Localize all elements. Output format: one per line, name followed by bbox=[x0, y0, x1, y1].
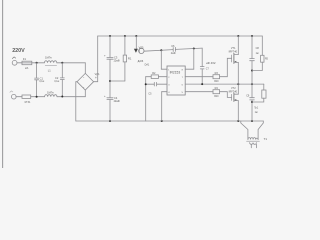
bus junction dots bbox=[109, 35, 111, 37]
capacitor C6 bbox=[172, 48, 174, 52]
capacitor C9 bbox=[250, 97, 255, 99]
VS row dots bbox=[201, 83, 203, 85]
wire bridge plus output bbox=[94, 36, 98, 82]
capacitor C2 bbox=[61, 63, 63, 78]
wire VB drop to pin8 bbox=[193, 49, 195, 70]
svg-text:1м: 1м bbox=[256, 52, 259, 55]
resistor R5 bbox=[261, 36, 263, 55]
svg-text:0,1м: 0,1м bbox=[54, 81, 59, 83]
capacitor C3 electrolytic bbox=[109, 36, 111, 57]
wire R4 to gate VT2 bbox=[220, 92, 232, 98]
page edge line bbox=[2, 0, 4, 168]
svg-text:С5: С5 bbox=[148, 92, 152, 95]
node B (C2 top) bbox=[61, 62, 63, 64]
inductor L1 bottom winding bbox=[45, 95, 57, 97]
bridge rectifier VD1 diamond bbox=[77, 73, 94, 90]
svg-text:22мФ: 22мФ bbox=[114, 100, 120, 103]
svg-text:нФ 4б2: нФ 4б2 bbox=[206, 61, 216, 65]
AC terminal X2 (bottom) bbox=[12, 94, 17, 99]
transformer core bbox=[247, 140, 260, 142]
wire VT2 source to ground bbox=[237, 101, 239, 121]
svg-text:1МГн: 1МГн bbox=[45, 56, 52, 60]
wire VT1 source to midpoint bbox=[237, 62, 239, 94]
transistor VT1 IRF740 bbox=[237, 36, 239, 55]
svg-text:2A: 2A bbox=[25, 66, 28, 70]
svg-text:2: 2 bbox=[168, 77, 170, 79]
pin stubs left bbox=[161, 68, 167, 70]
ground bus bbox=[76, 120, 263, 122]
wire terminal to thermistor bbox=[16, 96, 22, 98]
wire C3 to C4 bbox=[109, 60, 111, 98]
resistor R4 bbox=[213, 90, 220, 94]
svg-text:С8: С8 bbox=[256, 47, 260, 50]
svg-text:VД5: VД5 bbox=[139, 46, 144, 49]
node R6 join bbox=[251, 101, 253, 103]
capacitor C4 electrolytic bbox=[107, 97, 113, 99]
VCC row wire bbox=[144, 50, 173, 52]
node D (C2 bottom) bbox=[61, 96, 63, 98]
wire R3 to gate VT1 bbox=[220, 58, 232, 76]
svg-text:IRF740: IRF740 bbox=[229, 89, 238, 93]
svg-text:~: ~ bbox=[83, 77, 85, 80]
svg-text:0,1м: 0,1м bbox=[39, 81, 44, 83]
capacitor C5 bbox=[153, 82, 155, 86]
svg-text:7: 7 bbox=[182, 77, 184, 79]
AC terminal X1 (top) bbox=[12, 60, 17, 65]
svg-text:8: 8 bbox=[182, 69, 184, 71]
capacitor C8 divider chain bbox=[251, 36, 253, 58]
wire fuse to node A bbox=[32, 62, 45, 64]
svg-text:С9: С9 bbox=[246, 94, 250, 97]
svg-text:22мФ: 22мФ bbox=[114, 59, 120, 62]
svg-text:КТ31: КТ31 bbox=[25, 101, 31, 104]
transformer T1 primary winding bbox=[248, 138, 258, 140]
svg-text:~: ~ bbox=[83, 86, 85, 89]
svg-text:820: 820 bbox=[214, 95, 219, 98]
svg-text:6: 6 bbox=[182, 84, 184, 86]
node C (C1 bottom) bbox=[36, 96, 38, 98]
resistor R2 bbox=[151, 75, 158, 79]
svg-text:220V: 220V bbox=[12, 48, 25, 54]
svg-text:IR2153: IR2153 bbox=[170, 71, 181, 75]
svg-text:+: + bbox=[104, 94, 106, 98]
svg-text:С1: С1 bbox=[40, 76, 44, 80]
svg-text:3: 3 bbox=[168, 84, 170, 86]
resistor R3 bbox=[213, 75, 220, 79]
svg-text:4: 4 bbox=[168, 92, 170, 94]
secondary lead right bbox=[255, 144, 257, 148]
resistor R1 bbox=[124, 36, 126, 55]
svg-text:+: + bbox=[95, 76, 97, 80]
wire midpoint to R1 bbox=[110, 80, 125, 82]
svg-text:Д226: Д226 bbox=[138, 60, 144, 63]
IC DA1 IR2153 bbox=[167, 66, 185, 95]
fuse F1 bbox=[22, 61, 32, 64]
tilde mark bottom bbox=[10, 91, 13, 92]
wire choke to bridge (top AC) bbox=[57, 62, 86, 64]
svg-text:С6: С6 bbox=[171, 44, 175, 48]
capacitor C7 chain bbox=[201, 48, 203, 66]
diode VD5 with transistor circle bbox=[135, 36, 137, 49]
node C3/C4 midpoint bbox=[109, 80, 111, 82]
svg-text:Тр1: Тр1 bbox=[254, 107, 259, 110]
thermistor KT31 bbox=[22, 95, 31, 98]
svg-text:DA1: DA1 bbox=[145, 64, 150, 67]
svg-text:L1: L1 bbox=[48, 68, 51, 72]
capacitor C1 bbox=[36, 63, 38, 78]
wire choke to bridge (bottom AC) bbox=[57, 96, 85, 98]
wire VCC to pin1 bbox=[160, 50, 162, 69]
wire bridge minus output bbox=[76, 82, 77, 121]
transformer T1 primary lead right bbox=[258, 121, 263, 140]
svg-text:VТ1: VТ1 bbox=[231, 47, 236, 50]
svg-text:R5: R5 bbox=[265, 59, 269, 61]
wire thermistor to choke bbox=[31, 96, 45, 98]
top DC+ bus bbox=[98, 35, 263, 37]
svg-text:+: + bbox=[104, 54, 106, 58]
node VCC1 bbox=[160, 49, 162, 51]
wire R2 node to ground bbox=[145, 77, 147, 121]
tilde mark top bbox=[12, 57, 15, 59]
wire terminal to fuse bbox=[17, 62, 22, 64]
svg-text:820: 820 bbox=[214, 80, 219, 83]
svg-text:С7: С7 bbox=[206, 67, 210, 70]
wire pin4 to ground bbox=[161, 92, 163, 121]
pin stubs right bbox=[185, 68, 194, 70]
transformer secondary winding bbox=[250, 143, 257, 145]
svg-text:5: 5 bbox=[182, 92, 184, 94]
node VCC2 bbox=[193, 48, 195, 50]
svg-text:2мФ: 2мФ bbox=[171, 52, 176, 55]
svg-text:IRF740: IRF740 bbox=[229, 50, 238, 54]
node A (C1 top) bbox=[36, 62, 38, 64]
node R5 join bbox=[251, 70, 253, 72]
ground bus dots bbox=[109, 120, 111, 122]
wire bottom AC into bridge bbox=[84, 90, 86, 97]
svg-text:R1: R1 bbox=[128, 56, 132, 60]
transformer T1 primary lead left bbox=[241, 121, 248, 140]
svg-text:F1: F1 bbox=[23, 57, 27, 61]
svg-text:1МГн: 1МГн bbox=[47, 90, 54, 94]
secondary lead left bbox=[250, 144, 252, 148]
resistor R6 bbox=[263, 84, 265, 90]
svg-text:Т1: Т1 bbox=[264, 137, 268, 141]
wire top AC into bridge bbox=[84, 63, 86, 74]
transistor VT2 IRF740 bbox=[233, 93, 235, 102]
choke core line bbox=[45, 65, 56, 67]
svg-text:С2: С2 bbox=[55, 76, 59, 80]
inductor L1 top winding bbox=[44, 61, 56, 63]
svg-text:1м: 1м bbox=[255, 111, 258, 114]
